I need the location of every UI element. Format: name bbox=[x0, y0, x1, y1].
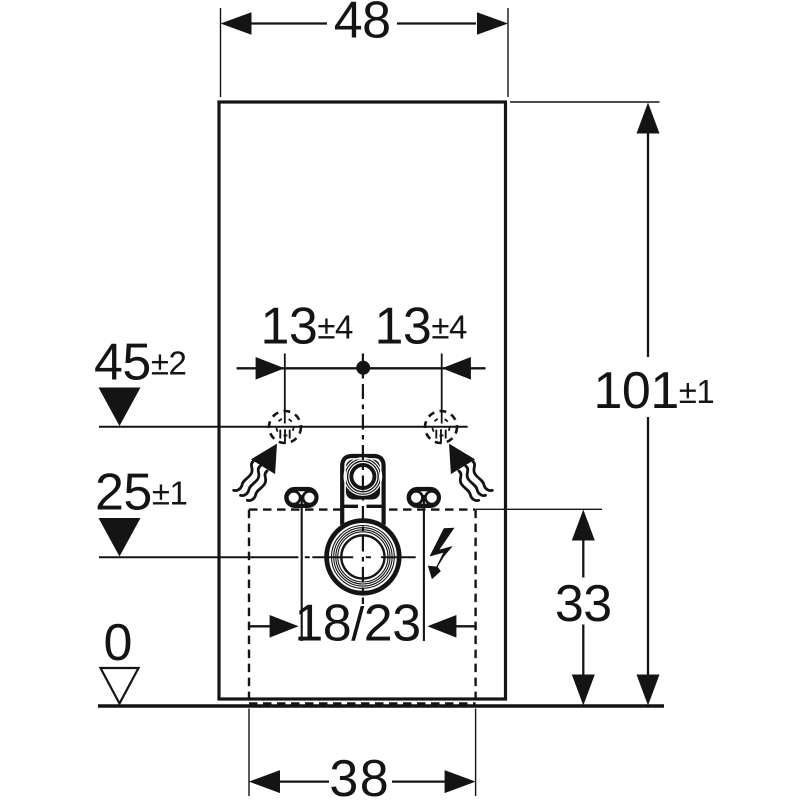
dim 48 arrow right bbox=[477, 12, 508, 35]
right dashed circle (drill mark) bbox=[425, 411, 457, 444]
water connection thin rings bbox=[332, 526, 395, 589]
dim 13 arrow right bbox=[442, 357, 471, 380]
dim 38 extension line right bbox=[475, 709, 477, 797]
svg-text:45±2: 45±2 bbox=[94, 333, 186, 391]
left fixing bracket (oval) bbox=[286, 489, 316, 506]
floor line bbox=[98, 704, 664, 708]
level line 45 bbox=[99, 426, 468, 428]
dim 33 arrow down bbox=[572, 675, 595, 706]
dim 33 extension line bbox=[476, 508, 602, 510]
svg-text:13±4: 13±4 bbox=[375, 298, 467, 356]
left bracket drop line bbox=[301, 495, 303, 641]
svg-text:18/23: 18/23 bbox=[294, 594, 420, 652]
left dashed circle (drill mark) bbox=[269, 411, 301, 444]
dim 101 line bbox=[647, 132, 649, 676]
dim 48 extension line left bbox=[220, 8, 222, 97]
panel outline (sanitary module front) bbox=[219, 102, 506, 699]
right flow arrow (wavy, mirrored) bbox=[449, 444, 492, 501]
dim 101 arrow up bbox=[637, 103, 660, 134]
flush bend (keyhole) body bbox=[342, 456, 383, 525]
water connection inner ring bbox=[341, 535, 384, 578]
water connection circle (white base) bbox=[324, 518, 401, 595]
dim 101 extension line bbox=[510, 101, 660, 103]
flush bend bar bbox=[344, 505, 382, 508]
dim 13 line bbox=[237, 367, 486, 369]
dim 13 center dot bbox=[356, 361, 370, 375]
lightning bolt (power connection) bbox=[428, 528, 455, 580]
svg-text:0: 0 bbox=[103, 614, 131, 672]
water connection outer ring bbox=[327, 521, 400, 594]
vertical centerline bbox=[362, 354, 364, 605]
dim 38 arrow right bbox=[445, 770, 476, 793]
dim 18/23 line right bbox=[455, 625, 475, 627]
dim 13 arrow left bbox=[256, 357, 285, 380]
dim 101 arrow down bbox=[637, 675, 660, 706]
dim 13 extension line left bbox=[284, 354, 286, 424]
datum triangle 0 (outline) bbox=[101, 668, 139, 704]
left flow arrow (wavy) bbox=[234, 444, 277, 501]
level line 25 (with centermark gaps) bbox=[99, 556, 416, 558]
svg-text:38: 38 bbox=[329, 750, 390, 800]
dim 48 line bbox=[250, 22, 476, 24]
dim 38 line bbox=[279, 780, 446, 782]
flush bend rings bbox=[344, 458, 382, 496]
dim 13 extension line right bbox=[441, 354, 443, 424]
svg-text:25±1: 25±1 bbox=[95, 463, 187, 521]
dim 33 arrow up bbox=[572, 510, 595, 541]
svg-text:48: 48 bbox=[334, 0, 391, 50]
svg-text:101±1: 101±1 bbox=[594, 362, 715, 420]
dim 38 arrow left bbox=[249, 770, 280, 793]
datum triangle 45 (filled) bbox=[99, 388, 141, 427]
flush bend inner blob bbox=[346, 460, 380, 500]
dim 38 extension line left bbox=[248, 709, 250, 797]
dim 48 extension line right bbox=[507, 8, 509, 97]
right fixing bracket (oval) bbox=[409, 489, 439, 506]
datum triangle 25 (filled) bbox=[99, 518, 141, 557]
svg-text:13±4: 13±4 bbox=[261, 298, 353, 356]
dim 18/23 line left bbox=[249, 625, 271, 627]
svg-text:33: 33 bbox=[555, 575, 612, 633]
dim 33 line bbox=[582, 539, 584, 677]
dim 48 arrow left bbox=[221, 12, 252, 35]
dim 18/23 arrow right bbox=[427, 615, 456, 638]
dim 18/23 arrow left bbox=[270, 615, 299, 638]
dashed recess box bbox=[249, 510, 476, 704]
right bracket drop line bbox=[423, 495, 425, 641]
